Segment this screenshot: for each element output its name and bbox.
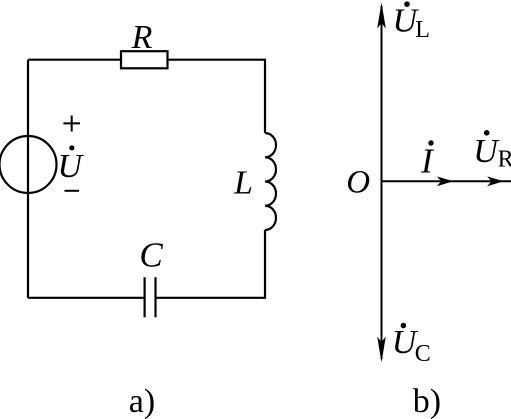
- phasor vertical axis: [381, 6, 383, 359]
- wire top-left segment: [28, 59, 121, 61]
- svg-text:L: L: [415, 17, 430, 43]
- svg-text:C: C: [415, 341, 431, 367]
- svg-text:R: R: [131, 19, 153, 56]
- wire right lower segment: [264, 230, 266, 298]
- arrowhead UL up: [377, 3, 386, 29]
- svg-text:O: O: [346, 164, 370, 200]
- svg-text:a): a): [129, 383, 155, 419]
- plus polarity mark: [63, 116, 80, 132]
- svg-text:U: U: [58, 148, 85, 185]
- svg-text:U: U: [473, 133, 500, 170]
- svg-text:R: R: [498, 147, 511, 173]
- arrowhead UR: [487, 176, 503, 186]
- wire right upper segment: [264, 60, 266, 133]
- minus polarity mark: [65, 190, 80, 192]
- wire left side: [27, 60, 29, 298]
- label U dot: [69, 145, 74, 150]
- arrowhead I: [437, 176, 453, 186]
- label UR dot: [484, 130, 490, 136]
- voltage source U: [0, 136, 57, 193]
- inductor L: [265, 133, 276, 230]
- wire bottom-right segment: [157, 297, 267, 299]
- label UC dot: [401, 323, 407, 329]
- phasor horizontal axis: [382, 180, 511, 182]
- wire top-right segment: [168, 59, 267, 61]
- label UL dot: [404, 1, 410, 7]
- resistor R: [121, 51, 168, 68]
- svg-text:C: C: [139, 236, 163, 275]
- label I dot: [428, 140, 433, 145]
- arrowhead UC down: [377, 337, 386, 363]
- capacitor C: [145, 277, 156, 317]
- svg-text:b): b): [413, 383, 441, 419]
- svg-text:L: L: [233, 165, 253, 202]
- wire bottom-left segment: [28, 297, 144, 299]
